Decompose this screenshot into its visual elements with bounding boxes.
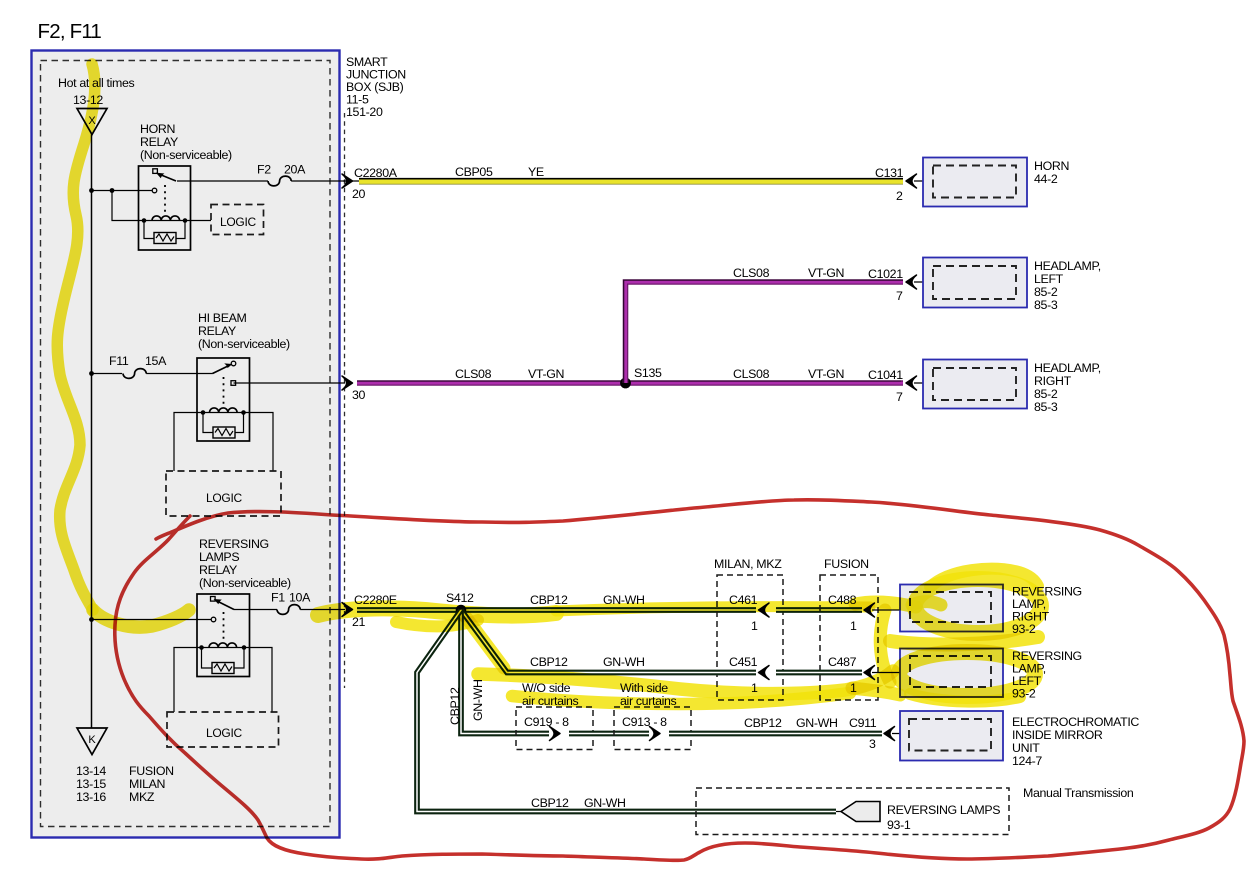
- wire CBP12 GN-WH diagonal to row2: [461, 610, 756, 673]
- bottom vehicle names: [129, 764, 174, 804]
- svg-text:85-2: 85-2: [1034, 285, 1058, 299]
- wire CBP12 GN-WH vertical drop row3: [461, 610, 549, 734]
- wire C913 to C911 segment: [669, 731, 882, 737]
- svg-text:CBP12: CBP12: [530, 593, 568, 607]
- hi beam relay resistor: [203, 413, 244, 439]
- connector C913 arrow: [650, 727, 661, 741]
- svg-text:C919 - 8: C919 - 8: [524, 715, 569, 729]
- SJB connector dashed line: [344, 113, 346, 688]
- svg-text:Manual Transmission: Manual Transmission: [1023, 786, 1134, 800]
- svg-text:7: 7: [896, 289, 903, 303]
- svg-text:LOGIC: LOGIC: [220, 215, 256, 229]
- dashed box MILAN MKZ: [714, 557, 783, 700]
- svg-text:REVERSING LAMPS: REVERSING LAMPS: [887, 803, 1000, 817]
- hi beam relay common terminal: [231, 361, 236, 366]
- SJB label: [346, 55, 406, 119]
- svg-text:151-20: 151-20: [346, 105, 383, 119]
- wire CBP12 GN-WH bottom row4: [417, 610, 836, 812]
- svg-text:VT-GN: VT-GN: [528, 367, 564, 381]
- hi beam relay actuator dotted: [223, 377, 225, 408]
- svg-text:C911: C911: [849, 716, 877, 730]
- wire hi beam tap: [92, 373, 123, 375]
- splice S135: [620, 366, 662, 388]
- component REVERSING LAMP RIGHT box: [900, 585, 1003, 632]
- wire C919 to C913 segment: [569, 731, 649, 737]
- svg-text:REVERSING: REVERSING: [199, 537, 269, 551]
- junction dot hi beam tap: [89, 371, 94, 376]
- svg-text:LOGIC: LOGIC: [206, 726, 242, 740]
- connector C488 label: [828, 593, 857, 633]
- connector C131 label: [875, 166, 904, 203]
- svg-text:F1: F1: [271, 591, 285, 605]
- wire C461 to C488 segment row1: [776, 607, 862, 613]
- svg-text:RELAY: RELAY: [140, 135, 178, 149]
- svg-text:S412: S412: [446, 591, 474, 605]
- ground triangle K: [77, 728, 107, 755]
- fuse F1 10A: [271, 591, 311, 615]
- horn relay common terminal: [153, 169, 158, 174]
- fuse F11 15A: [109, 354, 167, 378]
- svg-text:C131: C131: [875, 166, 904, 180]
- reversing relay U3 box: [197, 594, 250, 677]
- reversing relay switch arm: [214, 599, 235, 610]
- component REVERSING LAMP LEFT label: [1012, 649, 1082, 701]
- wire CBP12 GN-WH labels row4: [531, 796, 626, 810]
- component REVERSING LAMPS label: [887, 803, 1000, 832]
- wire horn tap: [92, 190, 153, 192]
- horn relay resistor: [144, 221, 185, 244]
- svg-text:GN-WH: GN-WH: [603, 655, 645, 669]
- svg-text:20: 20: [352, 187, 366, 201]
- reversing lamps relay label: [199, 537, 291, 590]
- connector C451 label: [729, 655, 758, 695]
- red pen annotation loop: [115, 500, 1244, 861]
- wire CBP05 YE yellow: [343, 179, 903, 185]
- wire CBP12 GN-WH labels row3: [744, 716, 838, 730]
- svg-text:HORN: HORN: [140, 122, 175, 136]
- svg-text:LOGIC: LOGIC: [206, 491, 242, 505]
- svg-text:UNIT: UNIT: [1012, 741, 1040, 755]
- svg-text:20A: 20A: [284, 163, 306, 177]
- wire reversing tap: [92, 619, 212, 621]
- svg-text:124-7: 124-7: [1012, 754, 1042, 768]
- connector C911 arrow: [884, 727, 909, 741]
- svg-text:C1041: C1041: [868, 368, 903, 382]
- svg-text:15A: 15A: [145, 354, 167, 368]
- svg-text:85-3: 85-3: [1034, 298, 1058, 312]
- connector C131 arrow: [906, 174, 933, 188]
- SJB inner dashed border: [41, 61, 331, 827]
- highlighter left vertical connector: [880, 610, 890, 682]
- wire horn relay to logic: [185, 220, 211, 222]
- connector C488 arrow: [864, 603, 911, 617]
- wire horn relay output to fuse: [177, 180, 268, 182]
- junction dot reversing tap: [89, 617, 94, 622]
- highlighter middle band between lamp loops: [890, 637, 1038, 644]
- connector C1041 label: [868, 368, 903, 404]
- svg-text:3: 3: [869, 737, 876, 751]
- svg-text:(Non-serviceable): (Non-serviceable): [199, 576, 291, 590]
- component REVERSING LAMP RIGHT label: [1012, 585, 1082, 637]
- node hot-at-all-times label: [58, 76, 134, 107]
- hi beam relay label: [198, 311, 290, 351]
- hi beam relay output terminal: [231, 381, 236, 386]
- connector C2280A label: [352, 166, 398, 201]
- wire fuse F11 to relay: [146, 373, 212, 375]
- svg-text:1: 1: [850, 619, 857, 633]
- wire reversing coil right to logic: [244, 648, 272, 713]
- wire CLS08 VT-GN labels upper: [733, 266, 844, 280]
- highlighter S412 diagonal stroke: [462, 612, 504, 668]
- connector C2280E exit arrow: [342, 603, 353, 617]
- svg-text:F11: F11: [109, 354, 129, 368]
- svg-text:CBP12: CBP12: [531, 796, 569, 810]
- fuse F2 20A: [257, 163, 306, 186]
- svg-text:C451: C451: [729, 655, 758, 669]
- svg-text:CLS08: CLS08: [455, 367, 492, 381]
- wire hi beam coil right to logic: [244, 413, 274, 472]
- wire horn coil branch: [112, 191, 144, 221]
- wire fuse F1 to C2280E: [300, 609, 345, 611]
- svg-text:2: 2: [896, 189, 903, 203]
- svg-text:LAMPS: LAMPS: [199, 550, 239, 564]
- svg-text:FUSION: FUSION: [129, 764, 174, 778]
- svg-text:CLS08: CLS08: [733, 367, 770, 381]
- svg-text:GN-WH: GN-WH: [796, 716, 838, 730]
- svg-text:GN-WH: GN-WH: [584, 796, 626, 810]
- dashed box C919: [516, 707, 593, 750]
- reversing relay coil: [199, 643, 246, 650]
- horn logic box: [211, 205, 264, 235]
- wire CBP12 GN-WH main to S412 and C461: [357, 607, 756, 613]
- horn relay coil: [142, 216, 188, 223]
- svg-text:ELECTROCHROMATIC: ELECTROCHROMATIC: [1012, 715, 1139, 729]
- svg-text:CBP12: CBP12: [530, 655, 568, 669]
- svg-text:85-2: 85-2: [1034, 387, 1058, 401]
- component HEADLAMP LEFT label: [1034, 259, 1101, 312]
- connector C919 arrow: [550, 727, 561, 741]
- svg-text:C1021: C1021: [868, 267, 903, 281]
- note With side air curtains: [620, 681, 677, 708]
- svg-text:CBP12: CBP12: [744, 716, 782, 730]
- wire C451 to C487 segment row2: [776, 670, 862, 676]
- wire CBP12 GN-WH labels row1: [530, 593, 645, 607]
- hi beam relay switch arm: [213, 363, 233, 373]
- svg-text:93-1: 93-1: [887, 818, 911, 832]
- connector C451 arrow: [759, 666, 770, 680]
- svg-text:CLS08: CLS08: [733, 266, 770, 280]
- svg-text:(Non-serviceable): (Non-serviceable): [198, 337, 290, 351]
- component HORN box: [923, 158, 1027, 207]
- junction dot horn tap: [89, 188, 94, 193]
- svg-text:F2: F2: [257, 163, 271, 177]
- connector C911 label: [849, 716, 877, 751]
- dashed box C913: [614, 707, 691, 750]
- svg-text:10A: 10A: [289, 591, 311, 605]
- svg-text:RELAY: RELAY: [198, 324, 236, 338]
- connector C2280E label: [352, 593, 397, 629]
- svg-text:INSIDE MIRROR: INSIDE MIRROR: [1012, 728, 1103, 742]
- main vertical feed wire: [91, 135, 93, 729]
- svg-text:MKZ: MKZ: [129, 790, 155, 804]
- bottom reference numbers: [76, 764, 106, 804]
- svg-text:MILAN, MKZ: MILAN, MKZ: [714, 557, 782, 571]
- svg-text:13-14: 13-14: [76, 764, 106, 778]
- component ELECTROCHROMATIC MIRROR box: [900, 711, 1003, 761]
- horn relay actuator dotted: [164, 185, 166, 212]
- power triangle X: [77, 109, 107, 135]
- highlighter wire2 stroke: [396, 620, 893, 704]
- svg-text:C487: C487: [828, 655, 857, 669]
- svg-text:CBP12: CBP12: [448, 687, 462, 725]
- component HEADLAMP LEFT box: [923, 258, 1027, 308]
- horn relay U1 box: [139, 166, 191, 250]
- svg-text:13-15: 13-15: [76, 777, 106, 791]
- wire CLS08 VT-GN branch to left headlamp: [624, 280, 903, 383]
- svg-text:GN-WH: GN-WH: [471, 679, 485, 721]
- svg-text:HI BEAM: HI BEAM: [198, 311, 247, 325]
- svg-text:MILAN: MILAN: [129, 777, 165, 791]
- svg-text:CBP05: CBP05: [455, 165, 493, 179]
- wire CLS08 VT-GN labels lower right: [733, 367, 844, 381]
- svg-text:RIGHT: RIGHT: [1034, 374, 1072, 388]
- reversing relay actuator dotted: [223, 612, 225, 641]
- svg-text:RELAY: RELAY: [199, 563, 237, 577]
- wire reversing relay output to fuse: [234, 609, 277, 611]
- svg-text:1: 1: [751, 619, 758, 633]
- reversing relay common terminal: [211, 597, 216, 602]
- svg-text:K: K: [88, 734, 96, 746]
- wire hi beam coil left to logic: [174, 413, 203, 472]
- svg-text:YE: YE: [528, 165, 544, 179]
- highlighter vertical wavy stroke: [57, 64, 189, 627]
- connector pin 30 exit arrow: [342, 376, 366, 402]
- note W/O side air curtains: [522, 681, 579, 708]
- junction dot horn coil branch: [110, 188, 115, 193]
- reversing relay NO contact: [211, 617, 216, 622]
- component HORN label: [1034, 159, 1069, 186]
- wire CBP05 YE labels: [455, 165, 544, 179]
- svg-text:7: 7: [896, 390, 903, 404]
- highlighter right lamp loop: [855, 569, 1041, 633]
- svg-text:13-16: 13-16: [76, 790, 106, 804]
- horn relay label: [140, 122, 232, 162]
- svg-text:HEADLAMP,: HEADLAMP,: [1034, 361, 1101, 375]
- dashed box manual transmission reversing lamps: [696, 788, 1009, 835]
- wire hi beam output to pin 30: [234, 382, 346, 384]
- svg-text:(Non-serviceable): (Non-serviceable): [140, 148, 232, 162]
- connector C461 label: [729, 593, 758, 633]
- horn relay switch arm: [156, 173, 176, 181]
- wire CLS08 VT-GN lower purple: [357, 381, 903, 383]
- svg-text:VT-GN: VT-GN: [808, 367, 844, 381]
- svg-text:VT-GN: VT-GN: [808, 266, 844, 280]
- wire CBP12 GN-WH labels row2: [530, 655, 645, 669]
- reversing relay resistor: [202, 648, 245, 674]
- hi beam logic box: [166, 471, 281, 516]
- component HEADLAMP RIGHT label: [1034, 361, 1101, 414]
- component ELECTROCHROMATIC MIRROR label: [1012, 715, 1139, 768]
- hi beam relay U2 box: [197, 358, 250, 441]
- wire CLS08 VT-GN labels lower left: [455, 367, 564, 381]
- svg-text:FUSION: FUSION: [824, 557, 869, 571]
- wire fuse to C2280A: [291, 180, 345, 182]
- splice S412: [446, 591, 474, 615]
- connector C1021 label: [868, 267, 903, 303]
- connector C487 arrow: [864, 666, 911, 680]
- svg-text:85-3: 85-3: [1034, 400, 1058, 414]
- connector C2280A exit arrow: [342, 174, 353, 188]
- highlighter left lamp loop: [852, 652, 1035, 702]
- connector REVERSING LAMPS plug: [836, 802, 880, 822]
- horn relay NO contact: [152, 188, 157, 193]
- hi beam relay coil: [201, 408, 246, 415]
- component HEADLAMP RIGHT box: [923, 360, 1027, 409]
- svg-text:LEFT: LEFT: [1034, 272, 1064, 286]
- connector C1041 arrow: [906, 376, 933, 390]
- highlighter wire1 stroke: [318, 607, 870, 616]
- component REVERSING LAMP LEFT box: [900, 649, 1003, 698]
- connector C487 label: [828, 655, 857, 695]
- connector C1021 arrow: [906, 275, 933, 289]
- svg-text:30: 30: [352, 388, 366, 402]
- dashed box FUSION: [820, 557, 878, 700]
- connector C461 arrow: [759, 603, 770, 617]
- svg-text:C913 - 8: C913 - 8: [622, 715, 667, 729]
- SJB box fill: [32, 51, 340, 838]
- svg-text:S135: S135: [634, 366, 662, 380]
- svg-text:44-2: 44-2: [1034, 172, 1058, 186]
- svg-text:HORN: HORN: [1034, 159, 1069, 173]
- wire reversing coil left to logic: [174, 648, 202, 713]
- reversing logic box: [167, 712, 279, 747]
- svg-text:HEADLAMP,: HEADLAMP,: [1034, 259, 1101, 273]
- svg-text:F2, F11: F2, F11: [38, 20, 102, 43]
